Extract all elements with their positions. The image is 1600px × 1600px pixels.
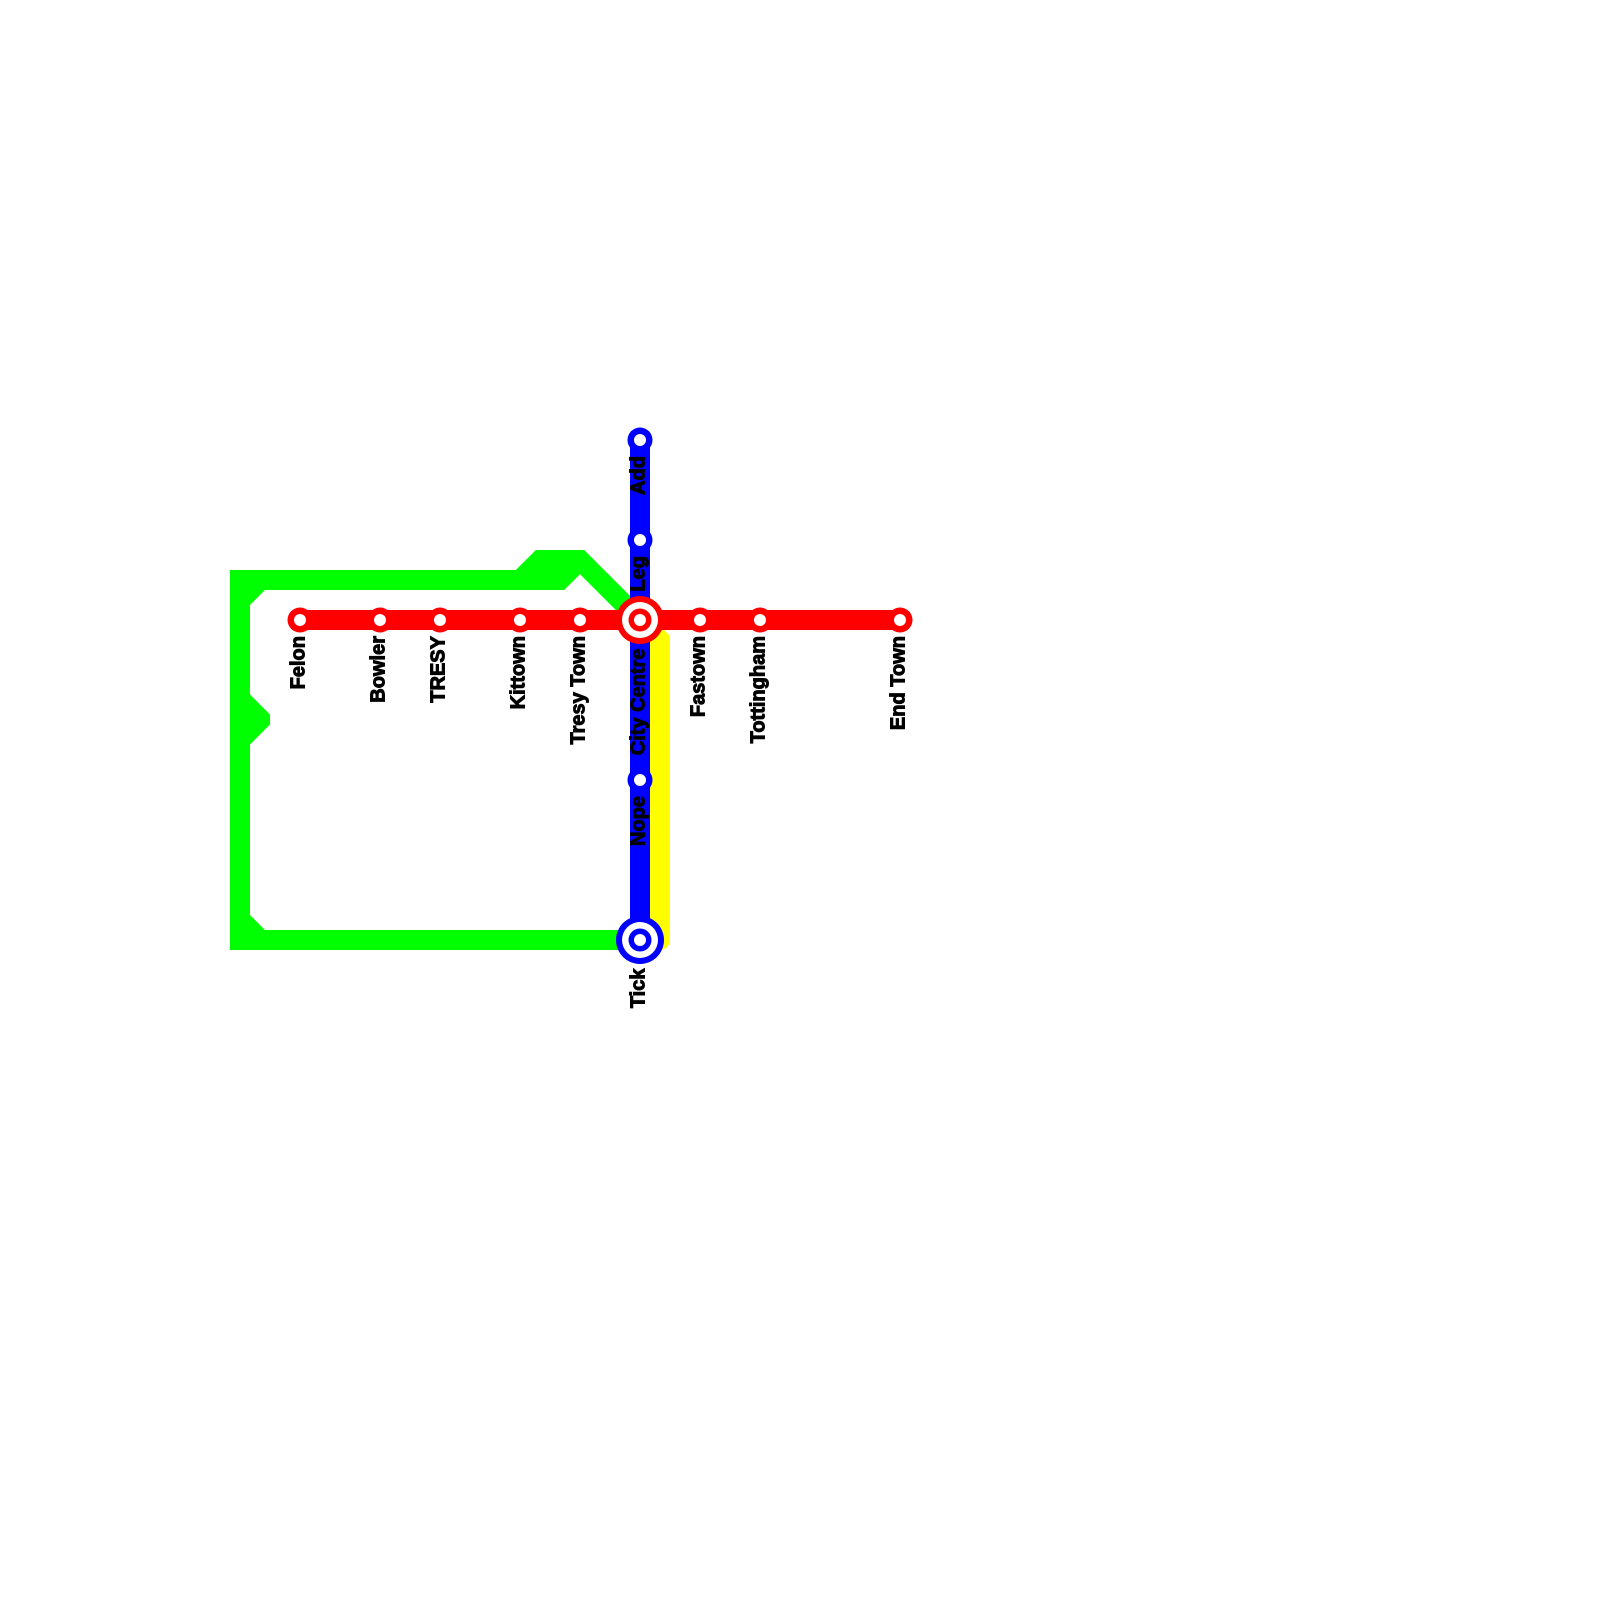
- station TRESY marker: [428, 608, 453, 633]
- svg-text:Fastown: Fastown: [688, 636, 710, 717]
- green line: main loop Tick to peak: [240, 560, 640, 940]
- svg-text:Nope: Nope: [628, 796, 650, 846]
- svg-text:Bowler: Bowler: [368, 636, 390, 703]
- station Fastown marker: [688, 608, 713, 633]
- svg-text:Felon: Felon: [288, 636, 310, 689]
- blue line: Add to Tick: [630, 440, 650, 940]
- green line: inner corner fillet top-left: [250, 590, 265, 605]
- yellow line: City Centre to Tick (offset right): [640, 620, 660, 940]
- station Kittown marker: [508, 608, 533, 633]
- svg-text:Add: Add: [628, 456, 650, 495]
- station Felon marker: [288, 608, 313, 633]
- station Tresy Town marker: [568, 608, 593, 633]
- station Bowler marker: [368, 608, 393, 633]
- svg-text:City Centre: City Centre: [628, 649, 650, 756]
- green line: peak branch into City Centre: [520, 560, 640, 620]
- svg-text:Tottingham: Tottingham: [748, 636, 770, 743]
- green line: zigzag bump on left vertical: [240, 685, 270, 755]
- station End Town marker: [888, 608, 913, 633]
- svg-text:Leg: Leg: [628, 556, 650, 592]
- station Tottingham marker: [748, 608, 773, 633]
- svg-text:Tick: Tick: [628, 968, 650, 1009]
- interchange City Centre roundel: [616, 596, 664, 644]
- station Add marker: [628, 428, 653, 453]
- red line: Felon to End Town: [300, 610, 900, 630]
- green line: inner corner fillet bottom-left: [250, 915, 265, 930]
- svg-text:End Town: End Town: [888, 636, 910, 730]
- interchange Tick roundel: [616, 916, 664, 964]
- svg-text:Kittown: Kittown: [508, 636, 530, 709]
- svg-text:Tresy Town: Tresy Town: [568, 636, 590, 745]
- svg-text:TRESY: TRESY: [428, 635, 450, 702]
- station Leg marker: [628, 528, 653, 553]
- station Nope marker: [628, 768, 653, 793]
